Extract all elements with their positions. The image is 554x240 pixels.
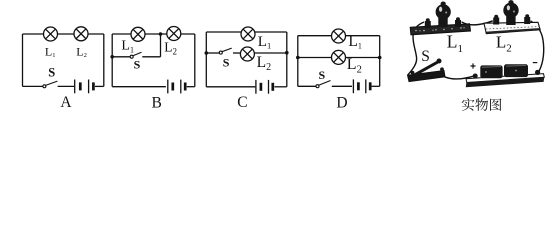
svg-text:L2: L2 <box>347 56 362 76</box>
wire C left edge <box>205 32 207 87</box>
svg-text:L1: L1 <box>447 32 463 55</box>
lamp holder L1 <box>410 2 470 35</box>
wire A bottom left <box>23 85 43 87</box>
wire D right edge <box>379 36 381 87</box>
wire D left edge <box>297 36 299 87</box>
wire L2-right-post down to battery minus <box>531 21 544 71</box>
lamp L2 (C) <box>240 47 254 61</box>
wire B shunt horiz left <box>112 56 130 58</box>
wire D bottom right <box>372 85 380 87</box>
svg-text:L1: L1 <box>258 34 271 50</box>
switch S (C) <box>219 48 231 54</box>
junction dot D left <box>296 56 300 60</box>
battery (B) <box>168 80 185 94</box>
svg-text:L2: L2 <box>76 44 87 59</box>
lamp L1 (B) <box>131 27 145 41</box>
wire A bottom right <box>95 85 104 87</box>
wire C top <box>206 31 286 33</box>
svg-text:L2: L2 <box>257 54 271 73</box>
wire B left edge <box>111 34 113 87</box>
wire A top <box>23 33 104 35</box>
svg-text:L1: L1 <box>45 44 56 59</box>
wire B shunt horiz right <box>142 56 160 58</box>
svg-text:L1: L1 <box>121 39 134 55</box>
wire L1-left-post to switch-left <box>408 22 424 75</box>
switch S (D) <box>316 81 331 88</box>
battery minus sign <box>533 62 538 64</box>
wire B right edge <box>194 34 196 87</box>
svg-text:S: S <box>421 48 430 65</box>
wire C bottom right <box>275 86 287 88</box>
battery plus sign <box>470 63 475 68</box>
wire A right edge <box>103 34 105 86</box>
wire D top <box>298 35 380 37</box>
svg-text:B: B <box>152 94 162 111</box>
lamp L1 (A) <box>44 27 58 41</box>
wire switch-right to battery plus <box>445 76 474 79</box>
svg-text:S: S <box>48 66 55 80</box>
svg-text:D: D <box>336 94 347 111</box>
wire C middle mid <box>233 52 240 54</box>
svg-text:C: C <box>237 94 247 111</box>
label shiwutu (physical diagram) <box>462 98 502 111</box>
junction dot C left <box>205 51 209 55</box>
junction dot C right <box>285 51 289 55</box>
battery (A) <box>75 80 94 94</box>
switch S (B) <box>130 52 141 58</box>
lamp L2 (A) <box>74 27 88 41</box>
wire D bottom mid <box>332 85 352 87</box>
lamp L1 (C) <box>241 27 255 41</box>
junction dot B top <box>159 32 163 36</box>
wire B top <box>112 33 195 35</box>
lamp L2 (B) <box>167 27 181 41</box>
svg-text:S: S <box>319 68 326 82</box>
wire C middle left <box>206 52 219 54</box>
wire C right edge <box>286 32 288 87</box>
wire A bottom mid <box>58 85 75 87</box>
junction dot D right <box>378 56 382 60</box>
battery (C) <box>256 80 273 94</box>
wire C bottom left <box>206 86 255 88</box>
battery holder (photo) <box>466 64 545 87</box>
battery (D) <box>353 79 370 93</box>
svg-text:S: S <box>223 56 230 70</box>
svg-text:S: S <box>134 58 141 72</box>
wire C middle right <box>254 52 286 54</box>
lamp L2 (D) <box>332 50 346 64</box>
wire B bottom left <box>112 86 166 88</box>
svg-text:L2: L2 <box>496 32 512 54</box>
knife switch (photo) <box>408 59 446 82</box>
wire D bottom left <box>298 85 316 87</box>
wire D middle <box>298 57 380 59</box>
wire L1-right-post to L2-left-post <box>462 21 493 25</box>
switch S (A) <box>43 81 58 88</box>
junction dot B left <box>110 55 114 59</box>
lamp L1 (D) <box>332 29 346 43</box>
wire B shunt vertical <box>160 34 162 57</box>
svg-text:A: A <box>60 94 72 111</box>
lamp holder L2 <box>484 0 540 34</box>
wire B bottom right <box>187 86 195 88</box>
wire A left edge <box>22 34 24 86</box>
svg-text:L2: L2 <box>164 39 177 56</box>
